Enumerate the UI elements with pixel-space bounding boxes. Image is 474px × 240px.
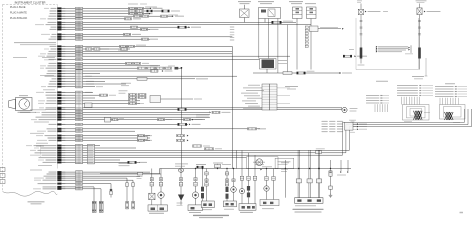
wire J3 run bbox=[83, 97, 96, 99]
row C2 connector bbox=[141, 28, 159, 30]
cluster pin + wire Q2 bbox=[47, 173, 76, 175]
wire I5 run bbox=[83, 80, 106, 82]
wire A2 run bbox=[83, 10, 163, 12]
bottom bus bbox=[100, 169, 351, 176]
speedometer gauge icon bbox=[9, 95, 33, 113]
inline connector on bus B1 bbox=[272, 21, 294, 24]
row E comps bbox=[120, 45, 147, 48]
wire J6 run bbox=[83, 107, 343, 109]
wire J4 run bbox=[83, 100, 141, 102]
row F comps bbox=[86, 48, 368, 58]
chain x266.5 bbox=[260, 166, 272, 199]
cluster pin + wire O7 bbox=[38, 159, 76, 161]
harness connector K3 bbox=[76, 116, 83, 118]
svg-text:PLUG B BLACK: PLUG B BLACK bbox=[10, 17, 28, 20]
connector pair row A3 bbox=[129, 12, 153, 14]
wire N1 run bbox=[83, 135, 151, 137]
left edge cut connector bbox=[0, 168, 5, 184]
harness connector ladder I bbox=[76, 70, 83, 88]
harness connector R2 bbox=[76, 186, 83, 188]
harness connector B2 bbox=[76, 23, 83, 25]
harness connector N1 bbox=[76, 134, 83, 136]
cluster pin + wire O6 bbox=[39, 157, 76, 159]
wire K1 run bbox=[83, 111, 210, 113]
J comps cluster bbox=[85, 92, 203, 108]
harness connector A5 bbox=[76, 18, 83, 20]
cluster pin + wire G1 bbox=[49, 58, 76, 60]
wire O4 run bbox=[83, 152, 346, 154]
wire A4 run bbox=[83, 15, 174, 17]
wire N2 run bbox=[83, 137, 151, 139]
wire Q2 run bbox=[83, 173, 162, 175]
wire L1 run bbox=[83, 123, 189, 125]
wire D2 run bbox=[83, 36, 233, 38]
wire E1 run bbox=[83, 45, 233, 47]
left header labels bbox=[13, 57, 44, 157]
connector pair row A2 bbox=[129, 10, 181, 13]
cluster pin + wire I4 bbox=[52, 78, 76, 80]
big vertical trunk x=232 bbox=[231, 46, 233, 168]
harness connector D2 bbox=[76, 36, 83, 38]
cluster pin + wire M2 bbox=[37, 130, 76, 132]
wire B2 run bbox=[83, 24, 312, 26]
labels near x137 bbox=[137, 176, 143, 179]
cluster pin + wire L1 bbox=[49, 123, 76, 125]
harness connector D3 bbox=[76, 38, 83, 40]
harness connector L1 bbox=[76, 123, 83, 125]
R fuse drops bbox=[92, 187, 103, 213]
wire A3 run bbox=[83, 13, 151, 15]
harness connector C1 bbox=[76, 26, 83, 28]
cluster pin + wire J2 bbox=[46, 94, 76, 96]
cluster pin + wire H2 bbox=[40, 65, 76, 67]
wire I3 run bbox=[83, 75, 238, 77]
cluster torn bottom edge bbox=[3, 191, 58, 196]
lamp chain x181 bbox=[179, 169, 183, 195]
wire F1 run bbox=[83, 48, 131, 50]
wire Q1 run bbox=[83, 171, 151, 173]
label PLUG B BLACK bbox=[10, 17, 28, 20]
wire H3 run bbox=[83, 67, 138, 69]
harness connector H1 bbox=[76, 62, 83, 64]
harness connector F4 bbox=[76, 55, 83, 57]
cluster pin + wire C1 bbox=[51, 26, 76, 28]
wire A1 run bbox=[83, 7, 152, 9]
wire K4 run bbox=[83, 119, 206, 121]
vertical trunk x=181.4 bbox=[181, 67, 183, 168]
instrument cluster right boundary wire bbox=[56, 5, 58, 169]
cap above bus x217 bbox=[213, 163, 223, 169]
K1 end connector bbox=[209, 111, 230, 113]
G5 junction box bbox=[260, 200, 279, 210]
wire M1 run bbox=[83, 128, 261, 130]
cluster pin + wire I7 bbox=[41, 86, 76, 88]
label PLUG A WHITE bbox=[10, 12, 27, 15]
Q3 Q4 bend drops bbox=[126, 178, 135, 209]
cluster pin + wire R1 bbox=[38, 183, 76, 185]
cluster pin + wire N3 bbox=[37, 139, 76, 141]
cluster pin + wire J4 bbox=[38, 100, 76, 102]
cluster pin + wire I3 bbox=[45, 75, 76, 77]
wire G1 run bbox=[83, 58, 260, 60]
O-group second ladder bbox=[88, 144, 95, 164]
left subblock labels bbox=[119, 83, 132, 94]
harness connector A3 bbox=[76, 12, 83, 14]
headlamp big box bbox=[293, 198, 324, 213]
svg-text:INSTRUMENT CLUSTER: INSTRUMENT CLUSTER bbox=[15, 0, 46, 4]
row I1 comps bbox=[151, 70, 173, 72]
G4 loop drop verticals bbox=[236, 150, 255, 168]
instrument cluster dashed boundary bbox=[3, 5, 58, 192]
wire R2 run bbox=[83, 186, 95, 188]
cluster pin + wire H3 bbox=[40, 67, 76, 69]
junction connector ladder mid bbox=[241, 84, 298, 110]
speaker label stack 3 bbox=[435, 83, 467, 104]
wire H1 run bbox=[83, 62, 126, 64]
relay box heater bbox=[258, 1, 281, 22]
dimmer oval bbox=[175, 163, 188, 172]
cluster pin + wire Q5 bbox=[34, 179, 76, 181]
harness connector A4 bbox=[76, 15, 83, 17]
junction box G2 bbox=[188, 205, 203, 213]
cluster pin + wire R2 bbox=[43, 186, 76, 188]
cluster pin + wire O2 bbox=[34, 147, 76, 149]
cluster pin + wire D1 bbox=[41, 33, 76, 35]
wire I2 run bbox=[83, 73, 101, 75]
cluster pin + wire O4 bbox=[35, 152, 76, 154]
G4 chain x248.5 bbox=[247, 169, 251, 204]
harness connector K4 bbox=[76, 118, 83, 120]
cluster pin + wire B1 bbox=[48, 21, 76, 23]
G3 junction box bbox=[201, 201, 214, 210]
wire I1 run bbox=[83, 70, 151, 72]
row H1 comps bbox=[126, 62, 150, 64]
harness connector N2 bbox=[76, 137, 83, 139]
wire O7 run bbox=[83, 159, 121, 161]
cluster pin + wire N1 bbox=[36, 135, 76, 137]
wire O3 run bbox=[83, 149, 350, 151]
wire O2 run bbox=[83, 147, 137, 149]
stray mark bottom right bbox=[460, 212, 464, 214]
nested rect group B bbox=[440, 105, 466, 120]
nested rect group A bbox=[403, 105, 430, 121]
right chain x330.5 bbox=[329, 160, 333, 197]
cluster pin + wire D3 bbox=[49, 38, 76, 40]
row I4 comps bbox=[137, 78, 208, 81]
wire F3 run bbox=[83, 53, 233, 55]
harness connector R3 bbox=[76, 188, 83, 190]
wire J7 run bbox=[83, 108, 342, 110]
cluster pin + wire C2 bbox=[50, 28, 76, 30]
group header labels bbox=[30, 57, 55, 171]
G4 chain x255 bbox=[253, 169, 257, 204]
harness connector F3 bbox=[76, 53, 83, 55]
row I stubs labels bbox=[85, 76, 103, 87]
J long line bbox=[178, 107, 358, 112]
flasher dark triangle bbox=[177, 195, 185, 206]
cluster pin + wire R3 bbox=[33, 188, 76, 190]
cluster pin + wire I6 bbox=[49, 83, 76, 85]
N comps bbox=[138, 134, 223, 150]
R0 drop connector bbox=[110, 184, 112, 198]
cluster pin + wire A5 bbox=[40, 18, 76, 20]
M1 comp bbox=[248, 128, 267, 130]
mid right label grid bbox=[322, 120, 368, 132]
G3 caption bbox=[193, 215, 229, 218]
cluster pin + wire A2 bbox=[50, 10, 76, 12]
wire O1 run bbox=[83, 145, 101, 147]
svg-text:PLUG 1 BLUE: PLUG 1 BLUE bbox=[10, 6, 26, 9]
antenna symbol 2 bbox=[416, 0, 441, 69]
wire C1 run bbox=[83, 26, 191, 28]
cluster pin + wire F1 bbox=[44, 48, 76, 50]
harness connector A1 bbox=[76, 7, 83, 9]
cluster pin + wire J5 bbox=[38, 102, 76, 104]
wire I7 run bbox=[83, 86, 96, 88]
lamp chain x195.5 bbox=[192, 169, 198, 205]
cluster pin + wire A4 bbox=[49, 15, 76, 17]
wire O8 run bbox=[83, 161, 141, 163]
cluster pin + wire O8 bbox=[43, 161, 76, 163]
G4 junction box bbox=[239, 204, 256, 213]
cluster pin + wire H1 bbox=[49, 62, 76, 64]
bottom-left group labels bbox=[119, 163, 133, 166]
radio box bbox=[356, 18, 427, 76]
G3b chain x233.5 bbox=[231, 169, 237, 202]
antenna symbol 1 bbox=[357, 0, 388, 65]
cluster pin + wire D2 bbox=[51, 36, 76, 38]
wire O6 run bbox=[83, 157, 247, 159]
cluster pin + wire N2 bbox=[48, 137, 76, 139]
connector row A4 bbox=[134, 14, 185, 17]
cluster pin + wire J6 bbox=[39, 107, 76, 109]
harness connector ladder O bbox=[76, 144, 83, 163]
cluster pin + wire F3 bbox=[40, 53, 76, 55]
G3 left chain x206.5 bbox=[205, 169, 209, 202]
title INSTRUMENT CLUSTER bbox=[15, 0, 46, 4]
harness connector D1 bbox=[76, 33, 83, 35]
wire Q3 run bbox=[83, 175, 141, 177]
junction box G1 bbox=[148, 205, 168, 214]
harness connector ladder J bbox=[76, 91, 83, 111]
bottom-left caption bbox=[28, 201, 45, 204]
cluster pin + wire J1 bbox=[36, 91, 76, 93]
row D comps bbox=[124, 33, 159, 40]
G3b junction box bbox=[223, 201, 236, 210]
wire I6 run bbox=[83, 83, 127, 85]
harness connector F1 bbox=[76, 48, 83, 50]
G3 dark stack x202.5 bbox=[201, 169, 204, 202]
harness connector H3 bbox=[76, 67, 83, 69]
connector row A5 bbox=[125, 18, 142, 20]
lamp loop inner rects bbox=[246, 157, 293, 169]
harness connector R1 bbox=[76, 182, 83, 184]
connector pair row A1 bbox=[129, 6, 163, 9]
wire D1 run bbox=[83, 33, 132, 35]
cluster pin + wire Q3 bbox=[44, 175, 76, 177]
L comp bbox=[178, 123, 201, 126]
cluster pin + wire I5 bbox=[50, 80, 76, 82]
radio box inner rows bbox=[349, 45, 413, 54]
wire B1 run bbox=[83, 21, 297, 23]
G4 chain x242 bbox=[239, 169, 244, 204]
cluster pin + wire E1 bbox=[50, 45, 76, 47]
wire F2 run bbox=[83, 50, 233, 52]
harness connector E1 bbox=[76, 45, 83, 47]
cluster pin + wire A3 bbox=[50, 13, 76, 15]
harness connector K2 bbox=[76, 114, 83, 116]
loop right verticals bbox=[343, 122, 350, 155]
wire H2 run bbox=[83, 65, 161, 67]
fuse ladder 1 bbox=[289, 1, 303, 69]
harness connector H2 bbox=[76, 65, 83, 67]
harness connector F2 bbox=[76, 50, 83, 52]
row C1 connector bbox=[131, 26, 202, 29]
O row comps bbox=[128, 161, 148, 164]
harness connector N3 bbox=[76, 139, 83, 141]
cluster pin + wire K2 bbox=[42, 114, 76, 116]
cluster pin + wire I1 bbox=[48, 70, 76, 72]
row G box bbox=[260, 59, 288, 70]
wire F4 run bbox=[83, 55, 291, 57]
cluster pin + wire Q4 bbox=[34, 177, 76, 179]
arrow stub drops bbox=[337, 160, 349, 176]
wire C2 run bbox=[83, 28, 151, 30]
row H3 comps bbox=[138, 66, 182, 70]
cluster pin + wire F4 bbox=[38, 55, 76, 57]
Q2 junction to bus bbox=[159, 173, 161, 175]
cluster pin + wire O1 bbox=[26, 145, 76, 147]
speaker label stack 1 bbox=[366, 81, 389, 112]
svg-text:PLUG A WHITE: PLUG A WHITE bbox=[10, 12, 27, 15]
K2 K3 labels bbox=[196, 114, 209, 118]
row E long labels bbox=[14, 42, 56, 45]
cluster pin + wire A1 bbox=[44, 7, 76, 9]
wire I4 run bbox=[83, 78, 196, 80]
harness connector C2 bbox=[76, 28, 83, 30]
cluster pin + wire B2 bbox=[35, 24, 76, 26]
harness connector B1 bbox=[76, 21, 83, 23]
wire J5 run bbox=[83, 102, 141, 104]
cluster pin + wire J7 bbox=[46, 108, 76, 110]
cluster pin + wire K3 bbox=[36, 116, 76, 118]
chain labels right of G4 bbox=[253, 162, 265, 165]
small labels left of loops bbox=[316, 121, 356, 154]
wire J2 run bbox=[83, 94, 109, 96]
bottom bus junction dots bbox=[180, 168, 331, 169]
X junction cluster A bbox=[404, 111, 430, 122]
wire N3 run bbox=[83, 139, 151, 141]
cluster pin + wire O3 bbox=[30, 149, 76, 151]
fuse ladder 2 bbox=[305, 3, 316, 69]
row H2 comps bbox=[150, 65, 158, 66]
cluster pin + wire Q1 bbox=[49, 171, 76, 173]
harness connector A2 bbox=[76, 10, 83, 12]
G3b chain x227 bbox=[225, 169, 229, 202]
K4 comps bbox=[105, 117, 203, 122]
wire y73 with connectors bbox=[253, 69, 352, 74]
cluster pin + wire F2 bbox=[49, 50, 76, 52]
cluster pin + wire K1 bbox=[35, 111, 76, 113]
cluster pin + wire J3 bbox=[47, 97, 76, 99]
cluster pin + wire K4 bbox=[31, 119, 76, 121]
wire J1 run bbox=[83, 91, 94, 93]
wire R3 run bbox=[83, 188, 102, 190]
wire A5 run bbox=[83, 18, 132, 20]
harness connector K1 bbox=[76, 111, 83, 113]
lamp chain x161 bbox=[158, 169, 164, 205]
chain x273.5 bbox=[272, 169, 276, 200]
wire Q4 run bbox=[83, 177, 128, 179]
harness connector G1 bbox=[76, 58, 83, 60]
wire D3 run bbox=[83, 38, 151, 40]
relay drop verticals bbox=[230, 19, 308, 74]
loop right horizontals bbox=[343, 109, 472, 127]
harness connector ladder Q bbox=[76, 171, 83, 182]
cluster pin + wire O5 bbox=[30, 154, 76, 156]
harness connector M1 bbox=[76, 128, 83, 130]
headlamp left vertical bbox=[281, 160, 289, 198]
harness connector M2 bbox=[76, 130, 83, 132]
wire O5 run bbox=[83, 154, 343, 156]
wire R1 run bbox=[83, 183, 112, 185]
bus B2 arrow tail bbox=[310, 26, 344, 32]
cluster pin + wire M1 bbox=[47, 128, 76, 130]
wire K3 run bbox=[83, 116, 211, 118]
bottom bus labels bbox=[196, 164, 231, 168]
relay box ignition bbox=[238, 1, 251, 22]
wire M2 run bbox=[83, 130, 136, 132]
headlamp vertical pairs bbox=[296, 150, 321, 198]
wire Q5 run bbox=[83, 179, 134, 181]
lamp chain x151.8 bbox=[149, 169, 155, 205]
label PLUG 1 BLUE bbox=[10, 6, 26, 9]
cluster pin + wire I2 bbox=[47, 73, 76, 75]
speaker label stack 2 bbox=[397, 76, 433, 105]
wire K2 run bbox=[83, 114, 211, 116]
X junction cluster B bbox=[445, 112, 461, 123]
header above A caps bbox=[128, 3, 147, 6]
